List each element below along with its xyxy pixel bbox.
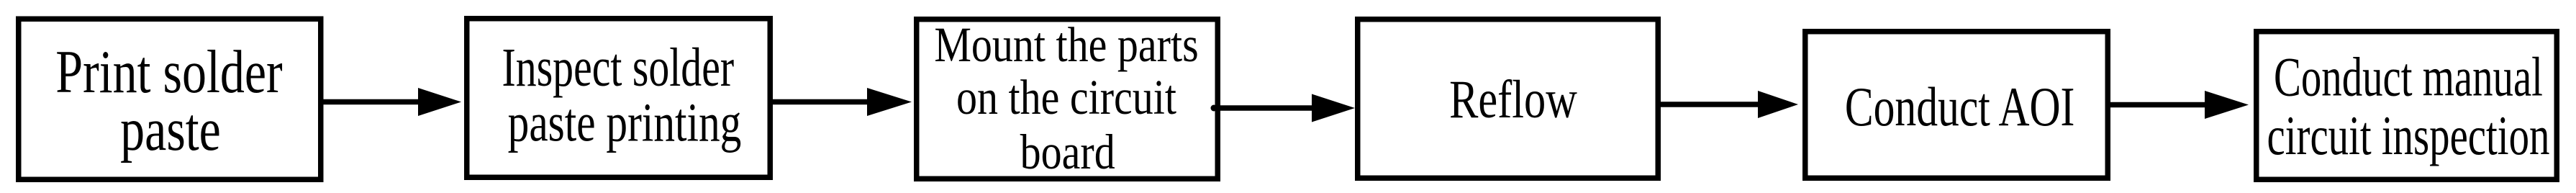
svg-text:paste printing: paste printing [508,92,742,153]
arrow 1: box1 to box2 [323,99,421,105]
arrow 3: box3 to box4 [1220,105,1315,111]
process box 4: Reflow [1358,19,1659,179]
svg-text:paste: paste [120,95,221,163]
process box 6: Conduct manual circuit inspection [2257,32,2557,180]
arrow 2: box2 to box3 [773,99,870,105]
svg-text:board: board [1020,124,1115,179]
process box 2: Inspect solder paste printing [467,19,771,178]
junction dot at start of arrow 3 [1211,105,1217,112]
arrow 5: box5 to box6 [2110,102,2208,108]
svg-text:Inspect solder: Inspect solder [502,37,735,97]
svg-text:Mount the parts: Mount the parts [934,17,1198,72]
svg-text:circuit inspection: circuit inspection [2267,105,2550,166]
svg-text:Reflow: Reflow [1449,69,1577,130]
process box 1: Print solder paste [19,19,321,179]
process box 3: Mount the parts on the circuit board [917,19,1218,179]
svg-text:Conduct AOI: Conduct AOI [1845,76,2074,138]
svg-text:Conduct manual: Conduct manual [2274,46,2543,107]
arrow 4: box4 to box5 [1661,102,1761,107]
svg-text:on the circuit: on the circuit [956,69,1176,125]
process box 5: Conduct AOI [1805,32,2108,179]
